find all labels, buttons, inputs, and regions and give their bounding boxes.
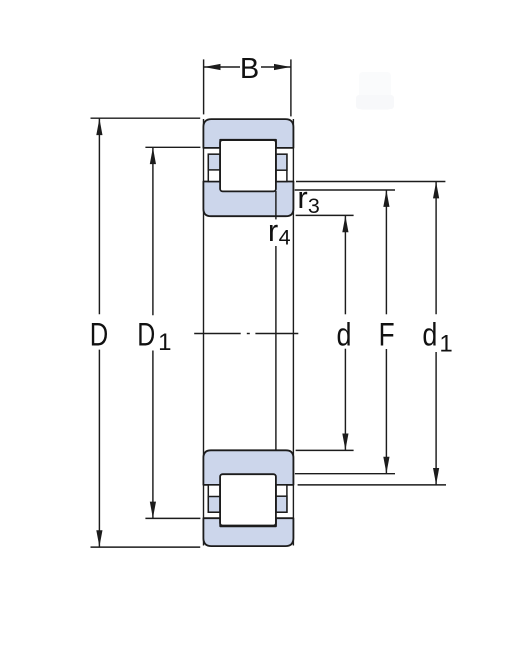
svg-text:D: D xyxy=(137,317,155,353)
faint watermark artifact xyxy=(359,72,391,110)
svg-text:4: 4 xyxy=(279,226,291,250)
cage bottom-right blue part xyxy=(276,496,287,512)
svg-text:1: 1 xyxy=(439,331,452,358)
svg-text:r: r xyxy=(268,213,278,248)
r4 leader line lower segment xyxy=(275,246,277,450)
inner ring bottom section xyxy=(203,450,293,485)
cage top-left white part xyxy=(208,154,220,181)
D extension line top xyxy=(91,117,201,119)
wire right side face silhouette line xyxy=(292,119,294,546)
svg-text:d: d xyxy=(422,317,437,353)
dimension line D1 xyxy=(152,148,154,316)
dimension line F xyxy=(385,190,387,314)
cage bottom-right white part xyxy=(276,485,287,512)
cage bottom-left white part xyxy=(208,485,220,512)
d extension line bottom xyxy=(296,449,354,451)
svg-text:3: 3 xyxy=(308,194,320,218)
dimension line d xyxy=(344,216,346,315)
dimension line B xyxy=(204,66,240,68)
svg-text:D: D xyxy=(90,317,109,353)
cage top-left blue part xyxy=(208,154,220,170)
svg-text:1: 1 xyxy=(158,329,171,356)
cage top-right blue part xyxy=(276,154,287,170)
cage bottom-left blue part xyxy=(208,497,220,513)
d1 extension line bottom xyxy=(298,484,446,486)
D1 extension line top xyxy=(145,146,200,148)
d extension line top xyxy=(296,214,354,216)
F extension line top xyxy=(295,189,395,191)
svg-text:F: F xyxy=(379,317,395,353)
wire left side face silhouette line xyxy=(203,119,205,546)
outer ring bottom section xyxy=(203,518,293,546)
svg-text:r: r xyxy=(297,180,307,215)
roller top section xyxy=(220,140,276,191)
B extension line right xyxy=(290,59,292,116)
roller bottom section xyxy=(220,474,276,525)
dimension line d1 xyxy=(435,182,437,314)
D extension line bottom xyxy=(91,546,201,548)
inner ring top section xyxy=(203,182,293,217)
cage top-right white part xyxy=(276,154,287,181)
F extension line bottom xyxy=(295,473,395,475)
D1 extension line bottom xyxy=(145,517,200,519)
B extension line left xyxy=(203,59,205,114)
svg-text:B: B xyxy=(240,53,259,85)
svg-text:d: d xyxy=(337,317,352,353)
d1 extension line top xyxy=(296,181,445,183)
centerline axis xyxy=(194,333,241,335)
outer ring top section xyxy=(203,119,293,148)
dimension line D xyxy=(98,119,100,315)
r4 leader line upper segment xyxy=(275,191,277,219)
